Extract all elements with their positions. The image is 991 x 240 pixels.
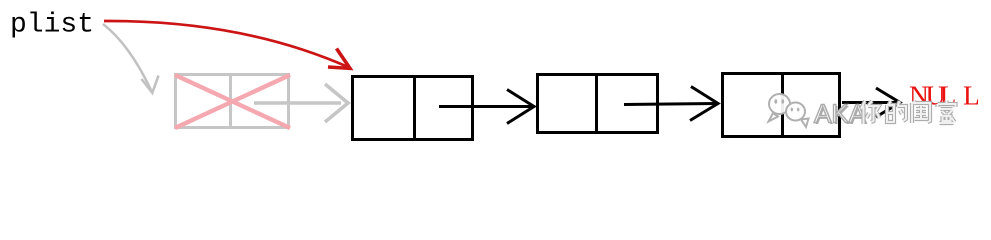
svg-text:plist: plist: [10, 10, 94, 41]
svg-text:AKA: AKA: [814, 99, 867, 129]
